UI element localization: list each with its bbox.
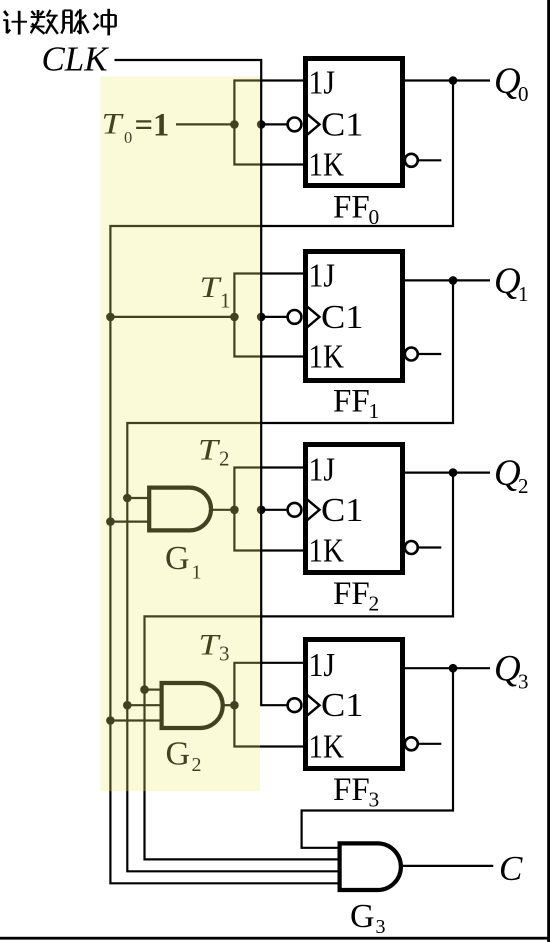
- clock edge triangle FF3: [307, 695, 320, 716]
- wire G1 input from Q1 trunk: [127, 497, 148, 499]
- flip-flop FF1 box: [306, 252, 403, 381]
- wire G3 output to C: [401, 865, 493, 867]
- Q-bar bubble FF0: [405, 154, 418, 167]
- wire CLK horizontal + clock trunk down to FF3 C1: [115, 60, 288, 705]
- and-gate G1: [149, 488, 211, 531]
- wire T0 input to J-K tie of FF0: [176, 123, 234, 125]
- node Q1 output junction: [449, 276, 458, 285]
- wire C1 stub FF0 from clock trunk: [261, 123, 287, 125]
- svg-text:FF: FF: [333, 576, 370, 612]
- node T1-JK tie junction: [230, 313, 239, 322]
- wire J-K tie bracket FF3: [234, 663, 304, 747]
- svg-text:FF: FF: [333, 190, 370, 226]
- frame border right: [547, 0, 550, 942]
- flip-flop FF0 box: [306, 59, 403, 186]
- svg-text:0: 0: [518, 82, 529, 106]
- C1 inversion bubble FF3: [288, 698, 302, 712]
- node T0-JK tie junction: [230, 120, 239, 129]
- svg-text:1J: 1J: [309, 647, 336, 684]
- svg-text:0: 0: [369, 205, 380, 229]
- wire Q0 output line: [405, 79, 490, 81]
- wire Q2 output line: [405, 472, 490, 474]
- wire C1 stub FF2 from clock trunk: [261, 509, 287, 511]
- node Q0 trunk-G2 junction: [106, 716, 115, 725]
- clock edge triangle FF2: [307, 499, 320, 520]
- wire Q1 output line: [405, 279, 490, 281]
- svg-text:Q: Q: [494, 261, 521, 302]
- node G1 out-JK tie junction: [230, 506, 239, 515]
- svg-text:1: 1: [369, 399, 380, 423]
- wire J-K tie bracket FF1: [234, 274, 304, 357]
- node G2 out-JK tie junction: [230, 701, 239, 710]
- and-gate G2: [162, 683, 223, 728]
- node Q0 trunk-T1 junction: [106, 313, 115, 322]
- wire Q3 output line: [405, 667, 490, 669]
- svg-text:C1: C1: [321, 106, 364, 143]
- node Q1 trunk-G1 junction: [123, 494, 132, 503]
- wire G2 input from Q2 trunk: [145, 688, 161, 690]
- svg-text:2: 2: [369, 592, 380, 616]
- node Q2 trunk-G2 junction: [140, 685, 149, 694]
- svg-text:2: 2: [518, 474, 529, 498]
- wire T1 from Q0 trunk to FF1 J-K tie: [110, 316, 234, 318]
- clock edge triangle FF1: [307, 306, 320, 327]
- C1 inversion bubble FF2: [288, 503, 302, 517]
- node Q2 output junction: [449, 468, 458, 477]
- wire J-K tie bracket FF0: [234, 81, 304, 165]
- node CLK-C1 junction FF0: [257, 120, 266, 129]
- svg-text:Q: Q: [494, 61, 521, 102]
- svg-text:C1: C1: [321, 492, 364, 529]
- node CLK-C1 junction FF2: [257, 506, 266, 515]
- svg-text:1: 1: [518, 282, 529, 306]
- wire Q0 feedback trunk (node Q0 to T1, G1, G2, G3): [110, 81, 453, 884]
- svg-text:C1: C1: [321, 687, 364, 724]
- C1 inversion bubble FF1: [288, 310, 302, 324]
- svg-text:C: C: [499, 849, 523, 888]
- wire Q-bar stub FF3: [418, 743, 442, 745]
- node Q3 output junction: [449, 664, 458, 673]
- Q-bar bubble FF2: [405, 541, 418, 554]
- node Q0 trunk-G1 junction: [106, 517, 115, 526]
- svg-text:FF: FF: [333, 384, 370, 420]
- wire G2 input from Q1 trunk: [127, 704, 160, 706]
- svg-text:C1: C1: [321, 299, 364, 336]
- Q-bar bubble FF3: [405, 737, 418, 750]
- wire Q-bar stub FF1: [418, 353, 442, 355]
- wire Q1 feedback trunk (node Q1 to G1, G2, G3): [127, 280, 453, 871]
- node Q1 trunk-G2 junction: [123, 701, 132, 710]
- wire Q3 feedback to G3: [302, 668, 453, 848]
- wire Q-bar stub FF0: [418, 159, 442, 161]
- frame border bottom: [0, 937, 550, 940]
- svg-text:1K: 1K: [309, 147, 345, 184]
- C1 inversion bubble FF0: [288, 118, 302, 132]
- wire J-K tie bracket FF2: [234, 468, 304, 551]
- wire G2 output to FF3 J-K tie: [223, 704, 235, 706]
- clock edge triangle FF0: [307, 114, 320, 135]
- svg-text:Q: Q: [494, 453, 521, 494]
- Q-bar bubble FF1: [405, 348, 418, 361]
- svg-text:1K: 1K: [309, 339, 345, 376]
- svg-text:Q: Q: [494, 649, 521, 690]
- node Q0 output junction: [449, 76, 458, 85]
- svg-text:1K: 1K: [309, 729, 345, 766]
- caption text 计数脉冲 (counting pulse), drawn strokes: [3, 9, 115, 36]
- svg-text:CLK: CLK: [42, 40, 110, 79]
- wire G2 input from Q0 trunk: [110, 719, 160, 721]
- wire Q-bar stub FF2: [418, 546, 442, 548]
- yellow highlight overlay region: [101, 76, 261, 791]
- svg-text:3: 3: [376, 916, 386, 938]
- svg-text:1J: 1J: [309, 452, 336, 489]
- svg-text:FF: FF: [333, 772, 370, 808]
- wire Q2 feedback trunk (node Q2 to G2, G3): [145, 473, 454, 860]
- svg-text:G: G: [350, 898, 375, 935]
- and-gate G3: [340, 843, 401, 890]
- svg-text:3: 3: [369, 788, 380, 812]
- svg-text:1J: 1J: [309, 258, 336, 295]
- wire G1 input from Q0 trunk: [110, 520, 148, 522]
- node CLK-C1 junction FF1: [257, 313, 266, 322]
- flip-flop FF3 box: [306, 640, 403, 769]
- svg-text:1J: 1J: [309, 65, 336, 102]
- wire C1 stub FF1 from clock trunk: [261, 316, 287, 318]
- wire G1 output to FF2 J-K tie: [211, 509, 234, 511]
- svg-text:1K: 1K: [309, 533, 345, 570]
- svg-text:3: 3: [518, 670, 529, 694]
- flip-flop FF2 box: [306, 445, 403, 573]
